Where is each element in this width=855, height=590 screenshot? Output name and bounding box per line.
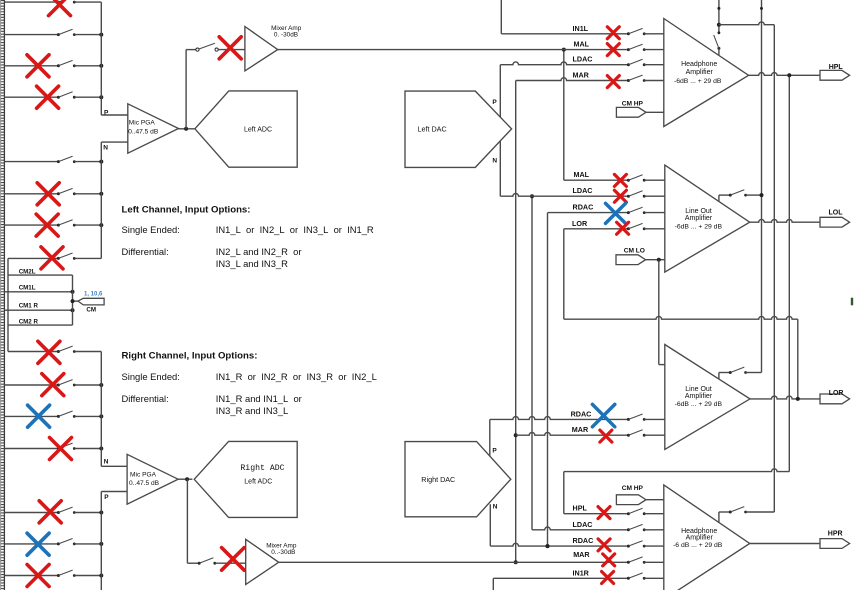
block Left DAC <box>405 91 512 167</box>
X mark (red) <box>50 438 72 460</box>
svg-text:IN1_R and IN1_L or: IN1_R and IN1_L or <box>216 393 302 404</box>
X mark (red) <box>37 86 59 108</box>
junction <box>99 33 103 37</box>
wire row IN1_LN <box>4 161 58 163</box>
X mark <box>607 76 619 88</box>
X mark (red) <box>39 501 61 523</box>
wire HPL output <box>749 73 820 76</box>
svg-text:Amplifier: Amplifier <box>685 215 713 222</box>
wire row IN3_RN to bus <box>74 415 101 417</box>
switch row IN4_LP <box>57 96 60 99</box>
wire RDAC vertical <box>547 213 549 546</box>
X mark <box>607 44 619 56</box>
block Left ADC <box>195 91 297 167</box>
wire PGA L output <box>179 128 195 130</box>
wire MAR row (mixer R out) <box>279 561 629 563</box>
wire RDAC row 3 <box>490 543 628 546</box>
svg-text:Right DAC: Right DAC <box>421 475 455 484</box>
switch row IN1_LP <box>57 1 60 4</box>
X mark (red) <box>27 55 49 77</box>
wire row IN4_RN to bus <box>74 448 101 450</box>
pin tag LOL <box>820 217 850 227</box>
svg-text:0..47.5 dB: 0..47.5 dB <box>129 480 160 487</box>
X mark <box>614 174 626 186</box>
svg-text:Differential:: Differential: <box>122 246 169 257</box>
svg-text:LDAC: LDAC <box>573 55 593 64</box>
svg-text:Mic PGA: Mic PGA <box>129 119 156 126</box>
wire row IN1_RP to bus <box>74 512 101 514</box>
wire LDAC N output down <box>499 141 501 196</box>
wire row IN2_RN to bus <box>74 384 101 386</box>
wire RDAC N output down <box>489 504 491 546</box>
wire LDAC vertical <box>531 196 533 530</box>
switch MAR row <box>627 561 630 564</box>
junction LOR <box>796 397 800 401</box>
wire CM1L <box>4 291 72 293</box>
op-amp Headphone Amplifier L <box>664 19 749 127</box>
junction bypass/rail A <box>760 193 764 197</box>
wire HPL vertical to row <box>563 472 565 514</box>
junction LDAC <box>530 194 534 198</box>
wire CM link vertical <box>7 258 9 351</box>
svg-text:IN1_R or IN2_R or IN3_R o: IN1_R or IN2_R or IN3_R or IN2_L <box>216 371 377 382</box>
op-amp Mixer Amp L <box>245 27 278 71</box>
svg-text:Mic PGA: Mic PGA <box>130 472 157 479</box>
X mark <box>617 222 629 234</box>
X mark <box>603 554 615 566</box>
block Right DAC <box>405 442 511 517</box>
junction <box>99 542 103 546</box>
svg-text:P: P <box>492 448 497 455</box>
X mark (red) <box>49 0 71 16</box>
svg-text:MAL: MAL <box>574 40 590 49</box>
X mark (red) <box>41 247 63 269</box>
pin tag HPR <box>820 539 850 549</box>
switch row IN4_LN <box>57 257 60 260</box>
wire row IN2_RP to bus <box>74 543 101 545</box>
svg-text:P: P <box>104 494 109 501</box>
bus N (right PGA) <box>100 352 102 467</box>
pin tag CM HP <box>616 107 646 117</box>
wire row IN3_RN <box>4 415 58 417</box>
svg-text:Right ADC: Right ADC <box>240 463 284 473</box>
op-amp Mic PGA (right) <box>127 454 178 504</box>
wire row IN1_LP to bus <box>74 1 101 3</box>
svg-text:Single Ended:: Single Ended: <box>122 371 180 382</box>
wire row IN4_LN <box>8 257 58 259</box>
op-amp Line Out Amplifier R <box>665 345 750 450</box>
junction MAR/LineOutR <box>514 433 518 437</box>
svg-text:LOL: LOL <box>829 210 844 217</box>
svg-text:HPL: HPL <box>829 64 844 71</box>
wire HPL horizontal link <box>564 469 790 472</box>
svg-text:IN3_L and IN3_R: IN3_L and IN3_R <box>216 258 288 269</box>
svg-text:N: N <box>103 145 108 152</box>
svg-text:Headphone: Headphone <box>681 61 717 68</box>
svg-text:-6dB ... + 29 dB: -6dB ... + 29 dB <box>675 223 723 230</box>
svg-text:Left ADC: Left ADC <box>244 126 272 133</box>
svg-text:LDAC: LDAC <box>573 186 593 195</box>
svg-text:0..-30dB: 0..-30dB <box>271 549 295 556</box>
wire row IN4_LP to bus <box>74 96 101 98</box>
wire MAL row <box>278 49 629 51</box>
op-amp Headphone Amplifier R <box>664 485 750 590</box>
wire LOR row <box>564 228 629 230</box>
wire LOR vertical link <box>563 229 565 319</box>
pin tag HPL <box>820 70 850 80</box>
wire IN1R row <box>493 577 628 579</box>
wire LDAC P output up <box>499 65 501 117</box>
switch row IN2_RP <box>57 542 60 545</box>
wire CM1R <box>4 309 72 311</box>
svg-text:LOR: LOR <box>829 390 844 397</box>
wire switch to mixer R <box>215 562 246 564</box>
marker: green cursor artifact <box>851 298 853 306</box>
wire row IN4_RN <box>4 448 58 450</box>
wire MAR row <box>516 78 629 81</box>
junction <box>99 64 103 68</box>
svg-text:Amplifier: Amplifier <box>685 393 713 400</box>
svg-text:MAR: MAR <box>573 550 590 559</box>
wire MAR vertical <box>515 81 517 563</box>
wire LOR horizontal link <box>564 316 798 319</box>
svg-text:LDAC: LDAC <box>573 520 593 529</box>
junction MAR/mixer R out <box>514 560 518 564</box>
wire row IN4_LN to bus <box>74 257 101 259</box>
junction <box>99 383 103 387</box>
switch MAL row <box>627 48 630 51</box>
switch row IN3_LP <box>57 64 60 67</box>
wire row IN2_RP <box>4 543 58 545</box>
wire row IN2_LN to bus <box>74 193 101 195</box>
junction HPL <box>787 73 791 77</box>
wire row IN3_LP to bus <box>74 65 101 67</box>
switch mixer amp R <box>198 562 201 565</box>
switch HPL row <box>627 512 630 515</box>
svg-text:IN3_R and IN3_L: IN3_R and IN3_L <box>216 405 288 416</box>
junction PGA L out node <box>184 127 188 131</box>
svg-text:Line Out: Line Out <box>685 208 712 215</box>
wire row IN4_LP <box>4 96 58 98</box>
wire LOL output <box>750 219 820 222</box>
junction <box>99 160 103 164</box>
wire row IN3_RP to bus <box>74 575 101 577</box>
wire row IN3_LN <box>4 224 58 226</box>
wire row IN1_RP <box>4 512 58 514</box>
wire CM LO to LineOut R <box>658 260 660 365</box>
switch row IN2_LN <box>57 192 60 195</box>
wire switch to mixer L <box>218 49 245 51</box>
svg-text:Right Channel, Input Options:: Right Channel, Input Options: <box>122 351 258 362</box>
junction CM LO <box>657 258 661 262</box>
rail A (amp feedback bus) <box>761 0 763 373</box>
svg-text:IN1L: IN1L <box>573 24 589 33</box>
X mark red (mixer R disabled) <box>222 548 245 571</box>
wire LDAC row 2 <box>500 193 628 196</box>
chip package edge (hatched boundary strip) <box>1 0 5 590</box>
switch MAR row <box>627 79 630 82</box>
svg-text:Differential:: Differential: <box>122 393 169 404</box>
svg-text:CM2 R: CM2 R <box>19 319 39 326</box>
switch row IN2_RN <box>57 384 60 387</box>
switch LOR row <box>627 227 630 230</box>
svg-text:LOR: LOR <box>572 219 588 228</box>
svg-text:RDAC: RDAC <box>573 203 594 212</box>
wire CM2R <box>8 324 73 326</box>
switch row IN3_RP <box>57 574 60 577</box>
X mark (blue) <box>28 405 50 427</box>
rail B (amp feedback bus) <box>773 25 775 512</box>
svg-text:Left DAC: Left DAC <box>418 124 447 133</box>
svg-text:Left ADC: Left ADC <box>244 478 272 485</box>
switch RDAC row 2 <box>627 418 630 421</box>
wire RDAC P output up <box>489 419 491 456</box>
switch row IN1_LN <box>57 160 60 163</box>
bus N (left PGA) <box>100 142 102 258</box>
svg-text:MAR: MAR <box>572 425 589 434</box>
svg-text:IN1_L or IN2_L or IN3_L o: IN1_L or IN2_L or IN3_L or IN1_R <box>216 224 374 235</box>
switch row IN1_RP <box>57 511 60 514</box>
bus P (left PGA) <box>100 2 102 115</box>
svg-text:CM2L: CM2L <box>19 268 36 275</box>
switch MAR row 2 <box>627 434 630 437</box>
X mark (red) <box>27 565 49 587</box>
switch LineOut L bypass <box>718 195 720 202</box>
svg-text:HPL: HPL <box>573 504 588 513</box>
junction rail A top <box>760 7 763 10</box>
wire row IN1_RN to bus <box>74 351 101 353</box>
wire LOR rail down <box>797 319 799 399</box>
switch row IN3_LN <box>57 224 60 227</box>
wire MAL vertical (mixer L out) <box>563 50 565 181</box>
svg-text:Left Channel, Input Options:: Left Channel, Input Options: <box>122 205 251 216</box>
switch HP L bypass (vertical) <box>718 0 720 33</box>
svg-text:P: P <box>104 110 109 117</box>
pin tag LOR <box>820 394 850 404</box>
X mark <box>592 404 614 426</box>
switch MAL row 2 <box>627 179 630 182</box>
junction MAL <box>562 48 566 52</box>
wire to CM tag <box>73 300 79 302</box>
X mark <box>600 430 612 442</box>
wire MAR row 2 <box>516 432 629 435</box>
svg-text:MAL: MAL <box>574 170 590 179</box>
switch RDAC row 3 <box>627 545 630 548</box>
wire LDAC row 3 <box>532 527 628 530</box>
wire row IN1_RN <box>8 351 58 353</box>
svg-text:Single Ended:: Single Ended: <box>122 224 180 235</box>
svg-text:RDAC: RDAC <box>571 409 592 418</box>
wire RDAC row 2 <box>490 417 629 420</box>
svg-text:CM: CM <box>86 306 96 313</box>
svg-text:CM1L: CM1L <box>19 285 36 292</box>
wire LOR output <box>750 396 820 399</box>
svg-text:-6dB ... + 29 dB: -6dB ... + 29 dB <box>674 78 722 85</box>
wire RDAC row <box>548 212 629 214</box>
wire row IN2_LP to bus <box>74 34 101 36</box>
wire row IN2_LN <box>4 193 58 195</box>
wire IN1L from top edge <box>500 0 502 34</box>
switch row IN3_RN <box>57 415 60 418</box>
svg-text:0..47.5 dB: 0..47.5 dB <box>128 128 159 135</box>
switch row IN2_LP <box>57 33 60 36</box>
X mark (red) <box>36 214 58 236</box>
junction RDAC <box>546 544 550 548</box>
X mark (red) <box>38 341 60 363</box>
op-amp Mixer Amp R <box>246 539 279 584</box>
svg-text:N: N <box>104 458 109 465</box>
svg-text:-6 dB ... + 29 dB: -6 dB ... + 29 dB <box>673 542 723 549</box>
pin tag CM LO <box>616 255 646 265</box>
svg-text:P: P <box>492 99 497 106</box>
switch row IN4_RN <box>57 447 60 450</box>
switch HP R bypass <box>718 512 720 523</box>
X mark <box>598 539 610 551</box>
wire PGA R output <box>178 478 192 480</box>
svg-text:Amplifier: Amplifier <box>686 535 714 542</box>
switch LineOut R bypass <box>718 373 720 379</box>
svg-text:Line Out: Line Out <box>685 386 712 393</box>
junction <box>99 95 103 99</box>
X mark (red) <box>37 183 59 205</box>
svg-text:CM HP: CM HP <box>622 485 644 492</box>
wire MAL row 2 <box>564 179 629 181</box>
junction <box>99 574 103 578</box>
junction <box>99 223 103 227</box>
switch row IN1_RN <box>57 350 60 353</box>
svg-text:1, 10,6: 1, 10,6 <box>84 292 103 298</box>
wire LDAC row <box>500 62 628 65</box>
wire CM bus <box>72 275 74 325</box>
op-amp Line Out Amplifier L <box>665 165 750 272</box>
wire row IN3_LN to bus <box>74 224 101 226</box>
wire row IN3_LP <box>4 65 58 67</box>
X mark <box>606 203 626 223</box>
op-amp Mic PGA (left) <box>128 104 179 153</box>
wire row IN1_LN to bus <box>74 161 101 163</box>
switch IN1R row <box>627 577 630 580</box>
switch mixer amp L (open) <box>196 48 199 51</box>
X mark red (mixer L disabled) <box>219 37 241 59</box>
svg-text:Amplifier: Amplifier <box>686 69 714 76</box>
junction PGA R out node <box>185 477 189 481</box>
junction <box>99 447 103 451</box>
junction RDAC <box>546 544 550 548</box>
X mark (red) <box>42 374 64 396</box>
svg-text:IN1R: IN1R <box>573 568 590 577</box>
wire HPR output <box>750 543 820 545</box>
pin tag CM <box>78 298 104 305</box>
svg-text:MAR: MAR <box>573 71 590 80</box>
block Right ADC <box>194 441 297 517</box>
X mark <box>602 572 614 584</box>
junction <box>99 511 103 515</box>
svg-text:-6dB ... + 29 dB: -6dB ... + 29 dB <box>675 401 723 408</box>
X mark <box>598 507 610 519</box>
wire row IN2_LP <box>4 34 58 36</box>
pin tag CM HP (right) <box>616 495 646 505</box>
svg-text:CM LO: CM LO <box>624 248 645 255</box>
switch LDAC row 2 <box>627 195 630 198</box>
bus P (right PGA) <box>100 492 102 590</box>
svg-text:RDAC: RDAC <box>573 536 594 545</box>
wire row IN2_RN <box>4 384 58 386</box>
wire HPL link rail C <box>788 75 790 471</box>
switch LDAC row <box>627 63 630 66</box>
X mark <box>607 27 619 39</box>
wire PGA out to mixer switch <box>185 50 187 129</box>
switch RDAC row <box>627 211 630 214</box>
svg-text:N: N <box>493 503 498 510</box>
X mark <box>614 190 626 202</box>
wire IN1L row <box>501 33 628 35</box>
svg-text:0. -30dB: 0. -30dB <box>274 32 298 39</box>
wire row IN3_RP <box>4 575 58 577</box>
switch LDAC row 3 <box>627 528 630 531</box>
svg-text:HPR: HPR <box>828 531 843 538</box>
wire HPL row <box>564 513 629 515</box>
wire IN1R from bottom edge <box>492 578 494 590</box>
wire PGA R out down to mixer switch <box>186 479 188 563</box>
wire row IN1_LP <box>4 1 58 3</box>
svg-text:CM HP: CM HP <box>622 100 644 107</box>
switch IN1L row <box>627 32 630 35</box>
svg-text:N: N <box>492 158 497 165</box>
svg-text:CM1 R: CM1 R <box>19 302 39 309</box>
junction <box>99 192 103 196</box>
wire CM2L <box>8 274 73 276</box>
X mark (blue) <box>27 533 49 555</box>
junction bypass/rail B <box>717 23 721 27</box>
junction <box>99 414 103 418</box>
svg-text:IN2_L and IN2_R or: IN2_L and IN2_R or <box>216 246 302 257</box>
